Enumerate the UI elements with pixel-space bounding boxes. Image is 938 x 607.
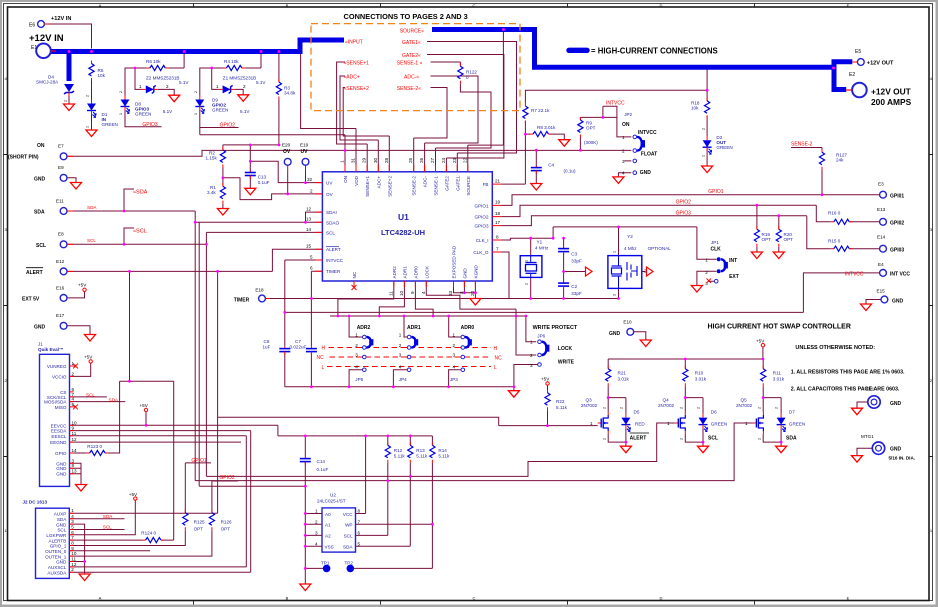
wire TP1 TP2 [305,567,432,569]
ground at D2 [702,166,713,173]
svg-text:E6: E6 [29,23,35,29]
wire J2 ALERTB R124 [69,539,173,541]
svg-text:E16: E16 [56,285,65,290]
resistor R1 [207,183,225,204]
svg-text:= HIGH-CURRENT CONNECTIONS: = HIGH-CURRENT CONNECTIONS [591,47,718,56]
terminal E11 SDA [34,199,97,216]
svg-text:E17: E17 [56,313,65,318]
svg-text:ALERTB: ALERTB [49,538,67,543]
svg-text:2: 2 [119,91,123,93]
svg-text:12: 12 [71,562,77,567]
resistor R16 [828,211,852,225]
capacitor C14 [300,457,329,472]
svg-text:2: 2 [310,188,313,193]
E6 terminal [29,21,49,29]
svg-text:U2: U2 [330,493,336,498]
ground at E17 [85,335,96,342]
LED D5 [621,410,649,442]
svg-text:GPIO3: GPIO3 [474,224,488,229]
op-amp U1 LTC4282-UH body [322,172,492,281]
svg-text:5.1V: 5.1V [256,80,266,85]
svg-text:24k: 24k [836,158,844,163]
svg-text:RED: RED [635,422,645,427]
svg-text:D: D [660,596,663,601]
svg-text:29: 29 [362,157,367,163]
wire E10 gnd [634,332,646,340]
svg-text:0.1uF: 0.1uF [258,180,270,185]
terminal E10 GND [609,320,634,337]
svg-text:1.15k: 1.15k [206,156,218,161]
svg-text:E7: E7 [58,144,64,149]
wire ADR1 drop [379,281,404,316]
wire ADR2 pin1 feed [349,316,362,337]
svg-text:OPTIONAL: OPTIONAL [648,246,672,251]
jumper JP2 ON [622,112,657,176]
svg-text:Y2: Y2 [627,234,633,239]
svg-text:E2: E2 [849,72,855,78]
wire Q4 gate line [206,423,674,476]
svg-text:»SENSE+1: »SENSE+1 [344,61,370,67]
ground at J2 [79,574,90,581]
LED D7 [777,410,806,442]
wire J2 AUXP [69,512,217,514]
svg-text:5.11k: 5.11k [394,454,406,459]
wire GPIO2 net [502,205,880,222]
svg-text:2: 2 [64,100,68,102]
wire MTG1 gnd [857,448,872,455]
LED D6 [699,410,728,442]
wire JP2 pin3 pin4 [618,161,631,177]
svg-text:2: 2 [679,438,683,440]
jumper JP4 ADR1 [399,325,421,382]
svg-text:ALERT: ALERT [630,435,647,441]
LED D2 [703,135,733,154]
svg-text:GND: GND [892,298,904,304]
ground at jumper bus [508,391,519,398]
wire R7 R8 divider [525,134,564,183]
capacitor C2 [558,282,582,297]
wire ALERT net [67,249,322,271]
crystal Y1 [520,240,549,278]
wire ON line E7 to JP2 [67,150,631,156]
svg-text:2: 2 [757,407,761,409]
svg-text:OV: OV [326,192,334,197]
wire R123 GPIO [70,381,120,453]
svg-text:SDAI: SDAI [326,210,337,215]
resistor R20 [776,226,793,247]
svg-text:4: 4 [355,365,358,370]
wire INTVCC long to E4 [285,273,880,313]
ground at JP1 pin2 [691,286,702,293]
svg-text:GPIO2: GPIO2 [219,475,235,481]
dashed orange connection box [311,24,520,111]
high-current bus SOURCE to +12V OUT [432,30,852,90]
wire U1 NC stub [353,281,355,288]
wire R12 drop [387,436,389,536]
svg-text:OPT: OPT [194,527,204,532]
svg-text:1: 1 [399,333,402,338]
svg-text:E19: E19 [300,143,309,148]
capacitor C3 [558,247,582,264]
wire harness GATE1 [427,42,517,172]
svg-text:11: 11 [388,291,393,296]
svg-text:GREEN: GREEN [212,108,228,113]
svg-text:OUTEN_0: OUTEN_0 [45,549,67,554]
svg-text:OPT: OPT [586,126,596,131]
svg-text:ADC-«: ADC-« [404,74,419,80]
svg-text:GREEN: GREEN [789,422,805,427]
svg-text:SCL: SCL [326,230,335,235]
U1 left pin names [326,181,344,275]
svg-text:Z2 MMSZ5231B: Z2 MMSZ5231B [146,76,179,81]
svg-text:R15 0: R15 0 [828,239,841,244]
connector J1 QuikEval [38,342,78,487]
jumper JP3 ADR0 [450,325,475,382]
svg-text:33pF: 33pF [571,291,582,296]
wire EEGND row [70,441,242,443]
wire harness ADC+ [340,76,378,172]
test point TP2 [345,561,355,573]
svg-text:VUNREG: VUNREG [47,364,67,369]
wire R5 to D1 [91,81,93,100]
svg-text:Q3: Q3 [586,398,593,403]
svg-text:GND: GND [56,466,67,471]
ground at E15 [861,304,872,311]
svg-text:2: 2 [679,407,683,409]
svg-text:2: 2 [86,95,90,97]
svg-text:INT: INT [729,258,737,264]
svg-text:10k: 10k [691,106,699,111]
U1 top pin numbers rotated [340,157,468,163]
svg-text:UV: UV [326,181,333,186]
left zone ticks [4,155,8,457]
svg-text:L: L [494,365,497,371]
resistor R126 [209,510,232,532]
svg-text:8: 8 [358,509,361,514]
wire KGND crystal bottom line [311,298,618,300]
+5V at E16 [78,283,87,292]
svg-text:0: 0 [466,75,469,80]
svg-text:10k: 10k [98,73,106,78]
wire bus to R6 [125,54,184,96]
svg-text:VSS: VSS [325,545,334,550]
wire SCL vertical down [205,244,207,476]
resistor R7 [523,103,550,124]
resistor R125 [183,510,205,532]
svg-text:SOURCE«: SOURCE« [400,28,424,34]
svg-text:EXT: EXT [729,274,739,280]
svg-text:GND: GND [34,324,46,330]
svg-text:4: 4 [421,291,426,294]
svg-text:UV: UV [301,149,309,155]
H NC L labels right [494,346,503,371]
svg-text:R124 0: R124 0 [141,531,156,536]
zener Z2 [139,76,189,94]
ground below C13 [245,188,256,195]
wire ADR0 drop [415,281,433,316]
wire E19 to UV [305,165,307,171]
svg-text:GPIO2: GPIO2 [676,200,692,206]
wire SDA net [67,189,322,222]
wire E20 to OV [287,165,289,171]
svg-text:C4: C4 [548,163,554,168]
wire CLK_I net [502,227,717,259]
ground below D1 [86,130,97,137]
svg-text:EEVCC: EEVCC [51,423,68,428]
svg-text:SENSE+2: SENSE+2 [387,176,392,197]
svg-text:INTVCC: INTVCC [845,271,864,277]
svg-text:EXT 5V: EXT 5V [22,296,40,302]
wire gnd bus bottom [285,387,514,391]
svg-text:GPIO1: GPIO1 [708,189,724,195]
svg-text:23: 23 [452,157,457,163]
wire harness SENSE+1 [337,62,368,172]
svg-text:22: 22 [462,157,467,163]
svg-text:C: C [473,596,476,601]
svg-text:26: 26 [419,157,424,163]
LED D8 [121,96,174,117]
wire J2 GND3 [69,524,84,561]
wire C14 vertical [304,436,306,584]
svg-text:1: 1 [71,508,74,513]
svg-text:+5V: +5V [84,355,93,360]
svg-text:10: 10 [72,420,78,425]
svg-text:7: 7 [496,246,499,251]
wire Y1 top stub [530,238,532,256]
svg-text:2N7002: 2N7002 [581,403,598,408]
svg-text:«SCL: «SCL [133,229,147,235]
ground below Z2 [169,95,180,102]
svg-text:GATE1: GATE1 [455,176,460,191]
svg-text:+12V IN: +12V IN [29,33,64,44]
svg-text:1: 1 [355,333,358,338]
svg-text:LTC4282-UH: LTC4282-UH [381,228,425,237]
svg-text:2: 2 [166,84,169,89]
svg-text:VDD: VDD [354,175,359,185]
svg-text:2: 2 [71,567,74,572]
svg-text:ADR2: ADR2 [392,266,397,279]
svg-text:H: H [494,346,498,352]
ground at J1 [76,485,87,492]
svg-text:ADR0: ADR0 [461,325,475,331]
red arrow off Y2 pin2 [647,267,654,276]
capacitor C7 [290,339,317,355]
svg-text:1: 1 [530,340,533,345]
svg-text:GND: GND [462,268,467,279]
svg-text:ON: ON [622,122,630,128]
ground at MTG1 [852,456,863,463]
wire ADR2 pin4 [349,370,362,387]
svg-text:3: 3 [530,363,533,368]
resistor R22 [545,390,568,411]
svg-text:18: 18 [495,211,501,216]
svg-text:E: E [847,596,850,601]
svg-text:2: 2 [525,283,529,285]
svg-text:LOCK: LOCK [558,346,573,352]
wire harness SENSE-1 R122 [431,62,492,172]
wire J2 SCL [69,529,124,531]
svg-text:SCL: SCL [57,528,66,533]
svg-text:4 Mhz: 4 Mhz [624,246,637,251]
svg-text:SCL: SCL [344,534,353,539]
svg-text:OPT: OPT [221,527,231,532]
svg-text:15: 15 [306,244,312,249]
svg-text:ALERT: ALERT [326,247,341,252]
TVS diode D4 [36,75,74,105]
svg-text:SCL: SCL [36,243,46,249]
ground at E9 [71,183,82,190]
svg-text:2: 2 [530,353,533,358]
svg-text:5.11k: 5.11k [556,405,568,410]
svg-text:KGND: KGND [473,265,478,279]
wire EESDA riser x199 [199,222,305,486]
right zone ticks [929,155,933,457]
svg-text:VCCIO: VCCIO [52,374,67,379]
svg-text:LOCK: LOCK [424,265,429,278]
svg-text:1: 1 [194,113,198,115]
svg-text:C8: C8 [264,339,270,344]
svg-text:ON: ON [343,176,348,183]
svg-text:1. ALL RESISTORS THIS PAGE ARE: 1. ALL RESISTORS THIS PAGE ARE 1% 0603. [791,370,905,376]
svg-text:2: 2 [315,519,318,524]
svg-text:INTVCC: INTVCC [606,101,625,107]
svg-text:L: L [322,365,325,371]
svg-text:SDA: SDA [103,514,113,519]
svg-text:GPIO_1: GPIO_1 [50,544,67,549]
resistor R12 [385,442,405,463]
wire R11 node [763,359,781,446]
svg-text:5: 5 [358,541,361,546]
svg-text:13: 13 [72,469,78,474]
svg-text:9: 9 [71,546,74,551]
svg-text:SDA: SDA [343,545,353,550]
svg-text:+5V: +5V [541,377,550,382]
svg-text:4: 4 [315,541,318,546]
svg-text:INT VCC: INT VCC [890,272,910,278]
resistor R10 [683,366,707,387]
bottom zone ticks [194,601,755,605]
zener Z1 [216,76,266,94]
svg-text:R123 0: R123 0 [87,444,102,449]
wire J2 GND11 [69,562,84,574]
resistor R13 [408,442,428,463]
svg-text:5: 5 [71,525,74,530]
terminal E15 GND [877,289,904,305]
wire Q3 gate R22 [547,385,549,425]
svg-text:CLK_I: CLK_I [476,238,489,243]
svg-text:JP5: JP5 [355,377,363,382]
svg-text:11: 11 [72,431,77,436]
wire C3 chain [564,238,585,298]
svg-text:A1: A1 [325,523,331,528]
svg-text:C2: C2 [571,284,577,289]
svg-text:ADR1: ADR1 [407,325,421,331]
wire jumper bus [330,315,526,317]
ground at R20 [773,252,784,259]
svg-text:WRITE PROTECT: WRITE PROTECT [533,325,578,331]
wire JP6 pin3 [514,365,538,387]
svg-text:GPIO: GPIO [55,451,67,456]
svg-text:E5: E5 [855,49,861,55]
wire R10 node [685,359,703,446]
wire harness SENSE-2 [414,88,447,172]
svg-text:E21: E21 [866,387,875,392]
svg-text:CLK: CLK [711,247,722,253]
svg-text:B: B [286,3,289,8]
svg-text:EXPOSED PAD: EXPOSED PAD [452,245,457,278]
svg-text:33: 33 [448,290,453,296]
wire +5V rail leds [608,347,763,359]
terminal E13 GPIO2 [877,207,904,227]
svg-text:SDA: SDA [109,397,119,402]
resistor R3 [276,79,296,100]
U1 right pin names [473,182,489,255]
svg-text:R122: R122 [466,70,477,75]
svg-text:C14: C14 [317,459,326,464]
crystal module Y2 [608,234,671,288]
svg-text:MOSI/SDA: MOSI/SDA [44,400,67,405]
U1 right pin numbers [495,178,501,251]
svg-text:2: 2 [620,407,624,409]
terminal E7 ON [8,143,73,161]
terminal E17 GND [34,313,90,334]
wire Y1 bottom stub [530,277,532,298]
svg-text:2: 2 [194,91,198,93]
svg-text:»ADC+: »ADC+ [344,74,360,80]
svg-text:A2: A2 [325,534,331,539]
svg-text:GND: GND [890,447,902,453]
+5V at led rail [756,339,765,347]
svg-text:32: 32 [307,177,313,182]
svg-text:+5V: +5V [129,492,138,497]
svg-text:HIGH CURRENT HOT SWAP CONTROLL: HIGH CURRENT HOT SWAP CONTROLLER [708,324,851,331]
svg-text:Quik Eval™: Quik Eval™ [38,347,64,352]
wire R21 node [608,359,626,446]
wire harness ADC- [425,76,478,172]
svg-text:E15: E15 [877,289,886,294]
zone letters bottom [99,596,850,601]
svg-text:R16 0: R16 0 [828,211,841,216]
wire CLK_O net [502,252,510,299]
wire R2 R1 [222,145,224,209]
svg-text:SMCJ-28A: SMCJ-28A [36,80,59,85]
svg-text:(0.1u): (0.1u) [564,169,576,174]
svg-text:R13: R13 [416,448,425,453]
svg-text:5.11k: 5.11k [438,454,450,459]
svg-text:A0: A0 [325,512,331,517]
zone numbers right [930,76,933,533]
H NC L labels left [317,346,326,372]
svg-text:2: 2 [701,128,705,130]
svg-text:GPIO3: GPIO3 [676,210,692,216]
svg-text:LGKPWR: LGKPWR [46,533,67,538]
ground at C4 [531,184,542,191]
ground at E10 [640,340,651,347]
svg-text:+5V: +5V [78,283,87,288]
svg-text:13: 13 [306,217,312,222]
svg-text:3.4k: 3.4k [207,190,216,195]
svg-text:2: 2 [602,407,606,409]
wire J2 OUTEN_0 [69,550,150,552]
wire J1 VCCIO 5V [70,363,91,376]
svg-text:3.01k: 3.01k [695,377,707,382]
ground at Q3 D5 [620,446,631,453]
terminal E18 TIMER [234,288,270,304]
resistor R15 [828,239,852,252]
svg-text:GATE2: GATE2 [444,176,449,191]
E2 terminal [846,72,867,97]
wire J2 AUXSDA [69,571,250,573]
